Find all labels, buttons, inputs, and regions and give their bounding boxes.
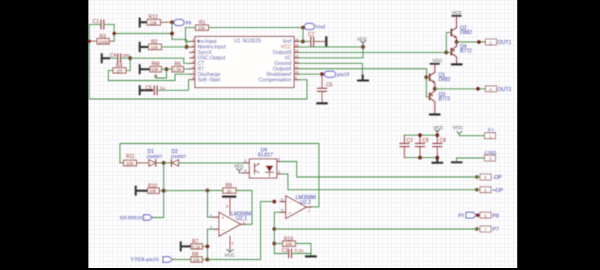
capacitor C1 <box>89 19 114 29</box>
svg-text:Vref: Vref <box>316 24 326 31</box>
svg-text:OUT1: OUT1 <box>498 40 512 46</box>
capacitor C7 <box>303 32 325 46</box>
svg-text:C6: C6 <box>326 83 333 89</box>
ground for GND pin <box>451 161 463 163</box>
ground for RW <box>140 64 150 74</box>
svg-text:VCC: VCC <box>453 125 464 131</box>
connector pin 7 P7 <box>475 226 499 233</box>
U1 left pin numbers <box>192 38 194 80</box>
svg-text:2R: 2R <box>117 68 124 73</box>
wire U4 pin2 to -OP <box>281 162 480 178</box>
svg-text:10k: 10k <box>198 26 206 31</box>
svg-text:−: − <box>288 200 291 206</box>
svg-text:8: 8 <box>226 204 228 208</box>
power flag VCC above Q1 <box>430 58 443 64</box>
wire down to R19/C3 <box>274 229 288 254</box>
node junction Q1/Q3 emitters <box>433 87 437 91</box>
wire node to U2.1 +input <box>208 191 214 218</box>
wire RW right <box>162 68 173 70</box>
cap bank top stems <box>404 135 437 143</box>
resistor R4 <box>113 63 126 73</box>
wire C4 down to R4 <box>126 58 130 70</box>
node junction Q2/Q4 emitters <box>455 40 459 44</box>
wire U2.2 output feedback top loop <box>120 144 319 207</box>
node junction R9 left <box>206 189 210 193</box>
svg-text:P7: P7 <box>493 227 499 233</box>
wire C1/R3 right vertical <box>113 25 115 42</box>
svg-text:pin10: pin10 <box>337 72 350 78</box>
svg-text:2: 2 <box>278 158 280 162</box>
ground for C3/R19 <box>305 255 317 257</box>
U1 left pin names <box>198 39 227 83</box>
connector pin 3 GND <box>484 150 496 161</box>
node junction pin16 <box>301 40 305 44</box>
svg-text:7: 7 <box>192 71 194 75</box>
connector pin 8 P8 <box>480 212 499 219</box>
wire R2 to noninv <box>162 46 187 48</box>
svg-text:13: 13 <box>295 54 299 58</box>
net flag pin10 <box>325 71 350 78</box>
node junction C8 top <box>435 133 439 137</box>
svg-text:100k: 100k <box>98 39 109 44</box>
transistor Q2 D882 <box>451 17 472 42</box>
node junction OUT1 pin <box>477 40 481 44</box>
svg-text:R11: R11 <box>126 154 135 160</box>
resistor R19 <box>274 236 311 255</box>
wire emitters to OUT2 <box>435 88 485 90</box>
resistor R3 <box>89 34 114 45</box>
svg-text:1.5k: 1.5k <box>173 67 182 72</box>
svg-text:Soft−Start: Soft−Start <box>198 77 221 83</box>
node junction D1/D2 <box>162 161 166 165</box>
wire R1 right to Vref node <box>209 27 304 29</box>
svg-text:2: 2 <box>192 43 194 47</box>
node junction R19 left <box>272 242 276 246</box>
U1 left pin stubs 1-8 <box>190 42 195 80</box>
resistor R10 <box>148 183 168 193</box>
svg-text:9: 9 <box>295 76 297 80</box>
svg-text:1: 1 <box>192 38 194 42</box>
resistor R2 <box>149 40 162 51</box>
svg-text:10k: 10k <box>126 161 134 166</box>
svg-text:6: 6 <box>281 198 283 202</box>
svg-text:1N4007: 1N4007 <box>171 154 187 159</box>
capacitor C3 <box>282 248 312 258</box>
capacitor C9 <box>416 138 429 146</box>
ground for Q4 <box>451 63 463 65</box>
wire pin10 <box>299 73 322 75</box>
node junction C8 bottom <box>435 156 439 160</box>
wire VCC to V+ pin <box>459 133 485 136</box>
svg-text:10k: 10k <box>285 242 293 247</box>
capacitor C4 <box>110 53 130 62</box>
ground below C8 <box>432 158 444 163</box>
svg-text:4: 4 <box>192 54 194 58</box>
resistor R12 <box>147 15 172 26</box>
svg-text:1N4007: 1N4007 <box>147 154 163 159</box>
wire U2.2 +input from P7 node <box>274 212 280 229</box>
optocoupler U4 EL817 <box>244 148 281 179</box>
power flag VCC at U4 pin4 <box>234 164 244 173</box>
svg-text:1u: 1u <box>160 86 166 91</box>
svg-text:10k: 10k <box>149 20 157 25</box>
U1 right pin numbers <box>295 38 299 80</box>
wire P8 down <box>171 22 173 39</box>
svg-text:10k: 10k <box>149 189 157 194</box>
svg-text:VTER-pin16: VTER-pin16 <box>131 257 159 263</box>
wire emitters to OUT1 <box>457 41 485 43</box>
svg-text:14: 14 <box>295 49 299 53</box>
connector pin 5 +OP <box>475 187 503 194</box>
wire pin11 OutputA to Q1/Q3 bases <box>299 69 427 78</box>
wire compensation loop right vertical to pin 9 <box>299 80 307 99</box>
transistor Q4 B772 <box>451 42 472 63</box>
net flag VTER-pin16 <box>131 257 192 264</box>
wire Q1/Q3 base link <box>426 77 429 97</box>
power flag VCC above pin15 <box>357 37 368 47</box>
resistor R6 <box>172 62 190 73</box>
svg-text:12: 12 <box>295 60 299 64</box>
wire R1 left to pin1 <box>186 28 196 42</box>
connector pin 1 V+ <box>485 128 496 139</box>
power flag VCC above Q2 <box>452 10 463 16</box>
wire Vref down to pin16 <box>299 28 303 42</box>
wire jog to noninv <box>172 39 190 47</box>
capacitor C5 <box>146 80 191 95</box>
ground for C7 <box>325 36 327 46</box>
ground for R7 <box>181 241 191 251</box>
svg-text:Compensation: Compensation <box>259 77 292 83</box>
wire R10 node to R9 node <box>164 190 208 192</box>
cap bank bottom stems <box>404 147 437 158</box>
bar above U2.1 pin8 <box>222 196 236 198</box>
svg-text:10: 10 <box>295 71 299 75</box>
node junction P7 net <box>272 227 276 231</box>
svg-text:10k: 10k <box>193 257 201 262</box>
op-amp U1 SG3525 box <box>195 37 294 88</box>
ground for pin12 <box>357 75 369 81</box>
svg-text:8: 8 <box>192 76 194 80</box>
svg-text:C5: C5 <box>146 85 153 91</box>
node junction C9 top <box>418 133 422 137</box>
svg-text:EL817: EL817 <box>258 153 273 159</box>
svg-text:3: 3 <box>244 159 246 163</box>
wire D1/D2 node down <box>153 163 164 218</box>
svg-text:15: 15 <box>295 43 299 47</box>
net flag P9 <box>458 212 479 219</box>
node junction OutputB at transistor bases <box>444 51 448 55</box>
net flag SD-PIN10 <box>120 215 153 222</box>
svg-text:1: 1 <box>278 170 280 174</box>
wire GND pin to ground <box>457 158 486 161</box>
svg-text:10k: 10k <box>151 45 159 50</box>
wire P7 long <box>274 228 480 230</box>
svg-text:P8: P8 <box>186 20 192 26</box>
node junction U2.2 -input <box>272 200 276 204</box>
connector pin 4 OUT2 <box>486 86 512 93</box>
node junction C4 <box>128 56 132 60</box>
svg-text:0.1u: 0.1u <box>295 248 304 253</box>
wire R8 node to U2.2 -input <box>207 202 274 260</box>
svg-text:D882: D882 <box>460 30 472 36</box>
net flag Vref <box>305 24 326 31</box>
svg-text:4: 4 <box>244 169 246 173</box>
wire pin15 VCC <box>299 46 363 48</box>
svg-text:11: 11 <box>295 65 299 69</box>
svg-text:+OP: +OP <box>493 188 504 194</box>
svg-text:5.1k: 5.1k <box>192 244 201 249</box>
wire C4 to CT (jog) <box>130 58 190 63</box>
svg-text:+: + <box>288 211 291 217</box>
capacitor C8 <box>433 138 446 146</box>
node junction P8 <box>170 20 174 24</box>
node junction R10 <box>162 189 166 193</box>
svg-text:1: 1 <box>243 221 245 225</box>
svg-text:U2.1: U2.1 <box>236 216 247 222</box>
net flag P8 top <box>174 20 191 27</box>
svg-text:U1 SG3525: U1 SG3525 <box>234 39 261 45</box>
svg-text:D882: D882 <box>439 77 451 83</box>
node junction R8 <box>206 258 210 262</box>
power flag VCC below U2.1 <box>225 249 236 258</box>
ground for C6 <box>316 102 327 104</box>
wire U2.1 output to R9 vertical <box>246 223 253 225</box>
ground for R10 <box>136 186 148 196</box>
resistor R11 <box>120 154 148 166</box>
transistor Q1 D882 <box>430 64 451 89</box>
svg-text:C3: C3 <box>282 248 289 254</box>
ground for C4 <box>102 53 111 63</box>
node junction inv-horizontal/P8 vertical <box>170 32 174 36</box>
wire R4 left loop to Discharge <box>108 70 190 80</box>
svg-text:3: 3 <box>192 49 194 53</box>
wire C1/R3 left vertical to compensation loop <box>88 25 90 100</box>
svg-text:16: 16 <box>295 38 299 42</box>
svg-text:U2.2: U2.2 <box>300 200 311 206</box>
op-amp U2.2 LM358M <box>280 195 316 218</box>
resistor R9 <box>208 183 253 224</box>
capacitor C6 <box>318 74 333 102</box>
wire inv input horizontal <box>114 33 172 35</box>
ground for R12 <box>140 18 147 28</box>
svg-text:-OP: -OP <box>493 175 503 181</box>
capacitor C2 <box>400 138 413 146</box>
wire cap bank top rail <box>404 134 437 136</box>
power flag VCC for V+ <box>453 125 464 134</box>
ground for R2 <box>140 42 149 53</box>
node junction OutputA at Q1 base <box>424 75 428 79</box>
svg-text:SD-PIN10: SD-PIN10 <box>120 215 143 221</box>
diode D1 1N4007 <box>147 149 164 166</box>
svg-text:VCC: VCC <box>234 164 244 169</box>
node junction RW/R6 <box>165 67 169 71</box>
op-amp U2.1 LM358M <box>210 198 251 249</box>
node junction noninv <box>185 45 189 49</box>
svg-text:P9: P9 <box>458 213 464 219</box>
svg-text:−: − <box>222 228 225 234</box>
U1 right pin names <box>259 39 292 83</box>
schematic canvas <box>88 0 517 268</box>
wire U2.1 -input down-left loop <box>207 229 213 259</box>
node junction Vref flag <box>301 26 305 30</box>
node junction C9 bottom <box>418 156 422 160</box>
svg-text:5: 5 <box>192 60 194 64</box>
svg-text:10k: 10k <box>151 67 159 72</box>
svg-text:6: 6 <box>192 65 194 69</box>
ground for Q3 <box>429 113 441 115</box>
svg-text:VCC: VCC <box>357 37 368 43</box>
potentiometer RW <box>150 62 167 78</box>
resistor R1 <box>196 20 209 31</box>
node junction OUT2 pin <box>476 87 480 91</box>
transistor Q3 B772 <box>430 89 451 114</box>
resistor R7 <box>191 239 207 249</box>
connector pin 2 OUT1 <box>486 39 512 46</box>
svg-text:7: 7 <box>308 209 310 213</box>
node junction C1/R3 right <box>113 32 116 35</box>
svg-text:P8: P8 <box>493 213 499 219</box>
wire cap bank bottom rail <box>404 157 437 159</box>
svg-text:+: + <box>222 216 225 222</box>
svg-text:5: 5 <box>281 209 283 213</box>
svg-text:B772: B772 <box>439 96 451 102</box>
wire VCC to pin13 <box>299 47 363 58</box>
wire compensation loop bottom <box>89 98 307 100</box>
diode D2 1N4007 (mirrored) <box>164 149 244 166</box>
wire Q2/Q4 base link <box>446 33 451 53</box>
power flag VCC above C8 <box>433 125 444 135</box>
resistor R8 <box>191 252 207 262</box>
svg-text:4: 4 <box>231 241 233 245</box>
ground for C5 <box>140 85 153 95</box>
node junction pin10 <box>320 72 324 76</box>
wire pin12 to ground <box>299 63 362 77</box>
wire pin14 OutputB to Q2/Q4 bases <box>299 51 446 53</box>
node junction R7 <box>206 245 210 249</box>
svg-text:B772: B772 <box>460 49 472 55</box>
U1 right pin stubs 16-9 <box>294 42 299 80</box>
svg-text:VCC: VCC <box>225 252 236 258</box>
svg-text:OUT2: OUT2 <box>498 87 512 93</box>
svg-text:3: 3 <box>210 214 212 218</box>
wire U4 pin1 to +OP <box>281 174 480 190</box>
connector pin 6 -OP <box>475 174 502 181</box>
node junction R3 left <box>88 40 91 43</box>
node junction VCC pin15 <box>361 45 365 49</box>
